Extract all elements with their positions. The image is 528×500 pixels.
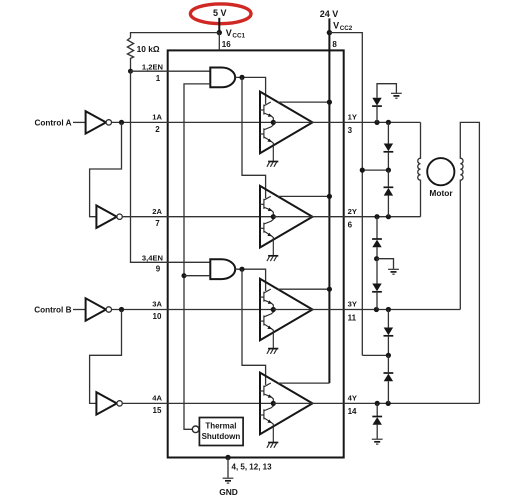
svg-text:V: V [333, 21, 339, 31]
svg-text:15: 15 [153, 406, 162, 415]
svg-text:7: 7 [155, 219, 160, 228]
svg-text:2Y: 2Y [348, 207, 357, 216]
wire output 3Y [273, 309, 460, 311]
node GND pin junction [225, 455, 230, 460]
svg-text:10 kΩ: 10 kΩ [137, 44, 160, 54]
svg-text:CC2: CC2 [340, 25, 353, 32]
driver amplifier A2 [260, 186, 313, 261]
inverter G2 (2A) [96, 206, 122, 228]
svg-text:24 V: 24 V [320, 9, 339, 19]
diode D6 (3Y to VCC2 node) [384, 328, 394, 336]
diode D4 (ground node to 2Y) [372, 239, 382, 247]
svg-text:1A: 1A [152, 113, 162, 122]
motor M1 body [427, 158, 454, 185]
wire D4 to ground node [376, 247, 378, 259]
wire 1Y to diode D2 [387, 122, 389, 143]
wire VCC2 rail elbow to mid node [362, 354, 388, 356]
wire 3Y to diode D6 [387, 310, 389, 328]
svg-text:16: 16 [222, 40, 231, 49]
wire D6 to mid node [387, 336, 389, 356]
wire mid node to D3 [387, 170, 389, 217]
wire output 4Y [273, 402, 479, 404]
svg-text:4A: 4A [152, 394, 162, 403]
wire ground node to diode D5 [376, 259, 378, 284]
AND gate U1 (1,2EN) [210, 68, 235, 88]
inverter G3 (Control B) [86, 298, 112, 320]
svg-text:V: V [226, 28, 232, 38]
wire VCC1 node to pull-up resistor [131, 33, 220, 38]
wire U2 output to driver A3 enable [235, 269, 265, 291]
svg-text:3: 3 [348, 126, 353, 135]
diode D1 (ground to 1Y) lead and elbow to ground [377, 84, 396, 98]
wire 2Y to diode D4 [376, 217, 378, 239]
wire motor right terminal with winding [460, 122, 479, 403]
wire VCC2 branch to clamp diode rail [329, 33, 362, 356]
svg-text:8: 8 [332, 40, 337, 49]
wire VCC2 rail pin 8 down to driver supply taps [328, 33, 330, 384]
node on VCC2 rail [360, 168, 365, 173]
wire G2 out to pin 2A [123, 216, 274, 218]
diode D5 (ground node to 3Y) [372, 284, 382, 292]
wire 1,2EN to AND gate U1 [131, 70, 211, 72]
wire Control A input [73, 121, 86, 123]
svg-text:2A: 2A [152, 207, 162, 216]
node 4Y diode taps [375, 401, 380, 406]
ground G4 (GND) [223, 478, 234, 483]
wire G4 out to pin 4A [123, 402, 274, 404]
svg-text:GND: GND [219, 487, 238, 497]
AND gate U2 (3,4EN) [210, 259, 235, 279]
wire U2 output to driver A4 enable [242, 269, 266, 385]
diode D8 (ground to 4Y) [372, 417, 382, 425]
svg-text:3Y: 3Y [348, 300, 357, 309]
inverter G4 (4A) [96, 392, 122, 414]
wire Control B input [73, 309, 86, 311]
wire 5V stub [218, 18, 220, 33]
svg-text:10: 10 [153, 312, 162, 321]
wire enable tie 1,2EN to 3,4EN [131, 71, 211, 262]
diode D7 (4Y to VCC2 node) [384, 373, 394, 381]
driver amplifier A3 [260, 279, 313, 354]
node 1,2EN junction [128, 69, 133, 74]
svg-text:3A: 3A [152, 300, 162, 309]
driver amplifier A1 [260, 92, 313, 167]
wire D2 to mid node [387, 152, 389, 170]
wire thermal node to U2 input [184, 275, 210, 277]
wire 24V stub [328, 18, 330, 32]
wire 3A node down to G4 input [90, 310, 122, 404]
svg-text:Motor: Motor [429, 188, 453, 198]
ground G3 [372, 439, 383, 444]
node U1 output [239, 75, 244, 80]
wire thermal shutdown enable line [184, 84, 210, 429]
svg-text:CC1: CC1 [232, 33, 245, 40]
wire output 2Y [273, 216, 420, 218]
ground G2 [388, 269, 399, 274]
wire ground node elbow [377, 259, 394, 269]
node 3Y diode taps [374, 307, 379, 312]
svg-text:1: 1 [156, 74, 161, 83]
IC outline box [168, 50, 344, 457]
svg-text:5 V: 5 V [213, 8, 227, 18]
wire D8 to ground [376, 425, 378, 439]
wire D1 to 1Y [376, 106, 378, 122]
node ground tie [374, 256, 379, 261]
node 2Y diode taps [374, 214, 379, 219]
diode D3 (2Y to VCC2 node) [384, 187, 394, 195]
svg-text:4, 5, 12, 13: 4, 5, 12, 13 [232, 463, 273, 472]
wire G1 out to pin 1A [112, 121, 273, 123]
node 1Y diode taps [374, 120, 379, 125]
driver amplifier A4 [260, 373, 313, 448]
node thermal line to U2 [182, 273, 187, 278]
driver A4 supply tap [278, 382, 330, 384]
svg-text:9: 9 [156, 264, 161, 273]
svg-text:6: 6 [348, 221, 353, 230]
wire motor left terminal with winding [418, 122, 421, 216]
inverter G1 (Control A) [86, 111, 112, 133]
wire U1 output to driver A1 enable [235, 77, 265, 104]
wire 1A node down to G2 input [90, 122, 122, 216]
node 3A [119, 307, 124, 312]
svg-text:Control B: Control B [34, 306, 71, 315]
svg-text:3,4EN: 3,4EN [142, 253, 163, 262]
svg-text:14: 14 [348, 407, 357, 416]
svg-text:2: 2 [155, 125, 160, 134]
wire output 1Y [273, 121, 420, 123]
wire 4Y to diode D8 [376, 403, 378, 416]
diode D1 [372, 98, 382, 106]
svg-text:Thermal: Thermal [205, 421, 236, 430]
resistor R1 10 kOhm [127, 38, 133, 71]
wire VCC1 to pin 16 [218, 33, 220, 51]
svg-text:11: 11 [348, 313, 357, 322]
ground G1 [391, 93, 402, 98]
red highlight ellipse around 5 V [190, 4, 251, 24]
node VCC1 [217, 30, 222, 35]
node mid D6/D7 [386, 353, 391, 358]
node VCC2 [327, 30, 332, 35]
wire VCC2 rail to mid node [362, 169, 388, 171]
svg-text:1,2EN: 1,2EN [142, 63, 163, 72]
wire GND stub [227, 458, 229, 478]
svg-text:1Y: 1Y [348, 113, 357, 122]
thermal shutdown block [199, 418, 243, 446]
node 1A [119, 120, 124, 125]
wire mid node to D7 and D7 to 4Y [387, 355, 389, 403]
diode D2 (1Y to VCC2 node) [384, 144, 394, 152]
svg-text:Shutdown: Shutdown [202, 432, 241, 441]
driver A3 supply tap [278, 288, 330, 290]
node mid D2/D3 [386, 168, 391, 173]
svg-text:4Y: 4Y [348, 394, 357, 403]
wire D5 to 3Y [376, 292, 378, 310]
driver A2 supply tap [278, 195, 330, 197]
wire U1 output to driver A2 enable [242, 77, 266, 198]
driver A1 supply tap [278, 101, 330, 103]
node U2 output [239, 267, 244, 272]
wire G3 out to pin 3A [112, 309, 273, 311]
svg-text:Control A: Control A [35, 118, 72, 127]
